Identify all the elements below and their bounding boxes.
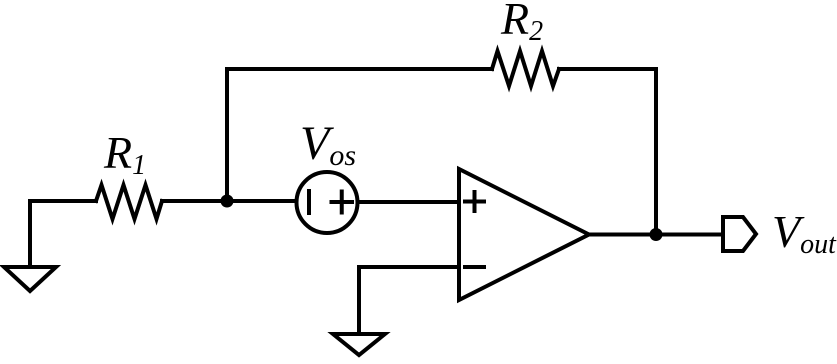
wire (359, 267, 459, 334)
resistor R1 (96, 185, 162, 219)
ground (4, 201, 56, 291)
svg-text:R2: R2 (500, 0, 543, 47)
wire (654, 69, 658, 235)
node Vout junction (650, 228, 663, 241)
resistor R2 (492, 51, 559, 86)
wire (360, 200, 460, 204)
wire (30, 199, 96, 203)
wire (225, 69, 229, 201)
svg-text:Vout: Vout (772, 206, 837, 260)
wire (559, 67, 656, 71)
op-amp U1 (459, 169, 589, 300)
output terminal Vout (723, 217, 756, 251)
ground (333, 334, 385, 355)
wire (162, 199, 295, 203)
node A (221, 195, 234, 208)
svg-text:R1: R1 (103, 127, 146, 181)
svg-text:Vos: Vos (300, 117, 356, 172)
wire (589, 233, 721, 237)
wire (227, 67, 492, 71)
voltage source Vos (297, 172, 358, 233)
